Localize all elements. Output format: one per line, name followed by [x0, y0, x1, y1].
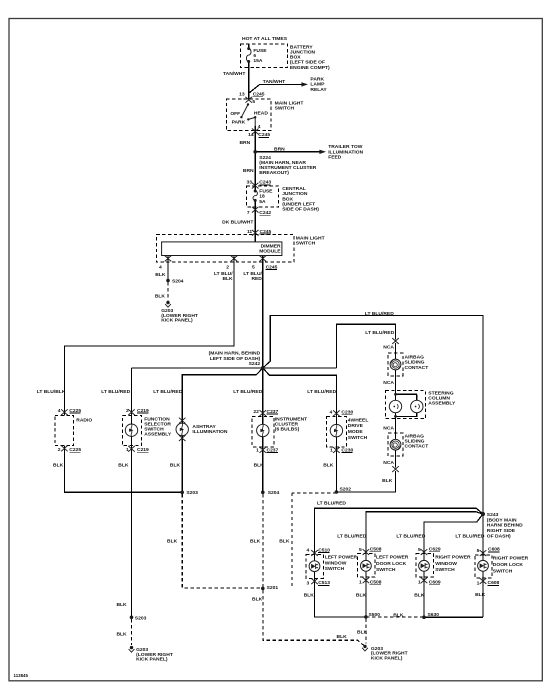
svg-text:RIGHT POWERWINDOWSWITCH: RIGHT POWERWINDOWSWITCH — [435, 555, 471, 573]
arrow to trailer tow illumination feed — [319, 150, 326, 154]
svg-text:BRN: BRN — [243, 168, 254, 174]
svg-text:NCA: NCA — [383, 345, 394, 351]
svg-text:C608: C608 — [488, 547, 500, 553]
connector NCA top (airbag chain) — [392, 338, 399, 344]
connector C245 dimmer pin 2 — [231, 256, 238, 262]
svg-text:C508: C508 — [370, 547, 382, 553]
wire main light switch output pin 14 BRN — [254, 126, 256, 186]
bulb ashtray illumination — [176, 423, 188, 435]
svg-text:LEFT POWERWINDOWSWITCH: LEFT POWERWINDOWSWITCH — [325, 555, 358, 573]
wire LT BLU/RED lower-right branch to 4wd switch — [263, 368, 337, 417]
splice S201 — [261, 587, 265, 591]
splice S203 (bottom left) — [130, 616, 134, 620]
connector C508 pin 1 — [363, 577, 370, 583]
svg-text:HOT AT ALL TIMES: HOT AT ALL TIMES — [242, 36, 288, 42]
svg-text:NCA: NCA — [383, 460, 394, 466]
svg-text:RADIO: RADIO — [76, 418, 92, 424]
svg-text:4: 4 — [58, 408, 61, 414]
svg-text:4WHEELDRIVEMODESWITCH: 4WHEELDRIVEMODESWITCH — [348, 417, 369, 441]
svg-text:BLK: BLK — [356, 593, 367, 599]
svg-text:BLK: BLK — [323, 463, 334, 469]
wire fuse F18 leads — [254, 186, 256, 207]
svg-text:LT BLU/RED: LT BLU/RED — [337, 534, 366, 540]
svg-text:BLK: BLK — [118, 463, 129, 469]
bulb 4wd mode switch — [330, 424, 342, 436]
svg-text:C513: C513 — [318, 580, 330, 586]
ground G203 (bottom left) — [129, 646, 135, 652]
wire BLK dashed S202 to S201 — [292, 493, 337, 588]
svg-text:C242: C242 — [259, 210, 271, 216]
svg-text:LT BLU/RED: LT BLU/RED — [101, 389, 130, 395]
wire BLK dashed S201 to G203 (bottom) — [263, 590, 364, 646]
svg-text:BLK: BLK — [116, 632, 127, 638]
wire LT BLU/RED bus to left power window switch — [315, 508, 484, 554]
svg-text:C230: C230 — [341, 447, 353, 453]
svg-text:5: 5 — [477, 548, 480, 554]
svg-text:TAN/WHT: TAN/WHT — [263, 79, 285, 85]
connector C245 pin 11 — [252, 230, 259, 236]
svg-text:S224(MAIN HARN, NEARINSTRUMENT: S224(MAIN HARN, NEARINSTRUMENT CLUSTERBR… — [259, 155, 316, 176]
bulb function selector illumination — [125, 424, 137, 436]
svg-text:G203(LOWER RIGHTKICK PANEL): G203(LOWER RIGHTKICK PANEL) — [136, 647, 173, 663]
left power window switch box outline — [306, 555, 323, 579]
svg-text:AIRBAGSLIDINGCONTACT: AIRBAGSLIDINGCONTACT — [405, 433, 429, 449]
svg-text:AIRBAGSLIDINGCONTACT: AIRBAGSLIDINGCONTACT — [405, 355, 429, 371]
svg-text:1: 1 — [359, 580, 362, 586]
fuse F6 15A symbol — [246, 49, 251, 62]
svg-text:DIMMER: DIMMER — [261, 243, 281, 249]
bulb instrument cluster — [257, 424, 269, 436]
left power door lock switch box outline — [358, 554, 375, 577]
svg-text:S242: S242 — [249, 361, 261, 367]
splice S204 (upper) — [166, 279, 170, 283]
wire LT BLU/RED bus to right power window switch — [424, 514, 483, 554]
wire DK BLU/WHT C242 to dimmer module pin 11 — [254, 207, 256, 242]
connector C245 pin 14 — [252, 129, 259, 135]
svg-text:4: 4 — [330, 409, 333, 415]
wire ashtray feed lead — [181, 418, 183, 424]
svg-text:LT BLU/: LT BLU/ — [214, 271, 233, 277]
wire LT BLU/RED S243 to right power door lock switch — [482, 514, 484, 555]
svg-text:14: 14 — [248, 132, 254, 138]
wire BLK dashed S203 to G203 (bottom left) — [131, 619, 133, 645]
svg-text:PARK: PARK — [232, 120, 246, 126]
svg-text:3: 3 — [306, 580, 309, 586]
svg-text:4: 4 — [306, 548, 309, 554]
ground G203 (bottom middle) — [362, 645, 368, 651]
svg-text:MAIN LIGHTSWITCH: MAIN LIGHTSWITCH — [275, 100, 304, 111]
wire BLK radio ground to S203 — [64, 446, 182, 493]
svg-text:(MAIN HARN, BEHIND: (MAIN HARN, BEHIND — [209, 351, 261, 357]
wire bulb leads right power window switch — [423, 554, 425, 577]
connector C608 pin 5 — [480, 550, 487, 556]
lamp right power door lock switch — [478, 560, 489, 571]
wire TAN/WHT fuse to main light switch pin 13 — [248, 67, 250, 99]
svg-text:BLK: BLK — [252, 597, 263, 603]
airbag sliding contact 2 box outline — [388, 433, 403, 456]
wire LT BLU/RED dimmer pin 5 to S242 — [262, 256, 264, 368]
wire LT BLU/RED drop to function selector — [131, 368, 133, 415]
svg-text:BRN: BRN — [274, 146, 285, 152]
svg-text:C245: C245 — [258, 132, 270, 138]
svg-text:BLK: BLK — [167, 539, 178, 545]
airbag sliding contact 2 symbol — [390, 439, 401, 450]
svg-text:7: 7 — [247, 210, 250, 216]
svg-text:HEAD: HEAD — [254, 110, 268, 116]
wire bulb leads function selector — [131, 415, 133, 445]
connector C513 pin 3 — [311, 578, 318, 584]
wire BLK dashed S500 to G203 — [365, 618, 367, 643]
svg-text:BLK: BLK — [155, 272, 166, 278]
svg-text:INSTRUMENTCLUSTER(6 BULBS): INSTRUMENTCLUSTER(6 BULBS) — [275, 417, 307, 433]
splice S243 — [481, 512, 485, 516]
connector C245 dimmer pin 4 — [165, 256, 172, 262]
svg-text:G203(LOWER RIGHTKICK PANEL): G203(LOWER RIGHTKICK PANEL) — [161, 308, 198, 324]
svg-text:BLK: BLK — [254, 463, 265, 469]
svg-text:FUNCTIONSELECTORSWITCHASSEMBLY: FUNCTIONSELECTORSWITCHASSEMBLY — [144, 416, 172, 437]
svg-text:2: 2 — [226, 264, 229, 270]
svg-text:LT BLU/RED: LT BLU/RED — [455, 534, 484, 540]
svg-text:C230: C230 — [341, 409, 353, 415]
svg-text:LT BLU/RED: LT BLU/RED — [396, 534, 425, 540]
svg-text:BLK: BLK — [337, 634, 348, 640]
svg-text:LEFT SIDE OF DASH): LEFT SIDE OF DASH) — [210, 356, 261, 362]
svg-text:2: 2 — [58, 447, 61, 453]
svg-text:S201: S201 — [267, 585, 279, 591]
svg-text:BLK: BLK — [250, 539, 261, 545]
svg-text:OFF: OFF — [230, 111, 240, 117]
svg-text:LT BLU/RED: LT BLU/RED — [153, 389, 182, 395]
wire LT BLU/BLK dimmer pin 2 to radio — [64, 256, 234, 416]
svg-text:LT BLU/RED: LT BLU/RED — [317, 500, 346, 506]
wire BLK dashed S203 to S201 — [182, 494, 263, 588]
splice S242 — [261, 366, 265, 370]
splice S202 — [335, 490, 339, 494]
svg-text:TRAILER TOWILLUMINATIONFEED: TRAILER TOWILLUMINATIONFEED — [328, 144, 363, 160]
lamp left power door lock switch — [361, 560, 372, 571]
svg-text:33: 33 — [247, 180, 253, 186]
wire BLK left power window switch to S500 — [315, 578, 366, 617]
svg-text:S500: S500 — [369, 612, 381, 618]
svg-text:1: 1 — [330, 447, 333, 453]
ground G203 (upper left) — [165, 301, 171, 307]
svg-text:S243(BODY MAINHARN/ BEHINDRIGH: S243(BODY MAINHARN/ BEHINDRIGHT SIDEOF D… — [487, 512, 523, 539]
svg-text:5: 5 — [418, 547, 421, 553]
svg-text:1: 1 — [418, 580, 421, 586]
wire LT BLU/RED top bus S242 to S243 — [263, 316, 483, 515]
fuse F18 5A symbol — [253, 191, 257, 200]
main light switch (dimmer) box outline — [156, 234, 294, 262]
splice S224 — [253, 150, 257, 154]
svg-text:MAIN LIGHTSWITCH: MAIN LIGHTSWITCH — [296, 236, 325, 247]
svg-text:C245: C245 — [266, 264, 278, 270]
svg-text:5: 5 — [359, 547, 362, 553]
svg-text:BLK: BLK — [382, 478, 393, 484]
svg-text:S204: S204 — [172, 278, 184, 284]
svg-text:BLK: BLK — [155, 293, 166, 299]
steering column lamp 2 — [411, 400, 423, 412]
svg-text:5: 5 — [252, 264, 255, 270]
wire NCA airbag sliding contact chain — [396, 343, 417, 401]
svg-text:C243: C243 — [259, 180, 271, 186]
wire BLK S630 to right power door lock switch — [424, 578, 483, 617]
splice S204 (near cluster) — [261, 491, 265, 495]
connector NCA bottom (airbag chain) — [392, 466, 399, 472]
svg-text:C245: C245 — [260, 229, 272, 235]
wire TAN/WHT branch to park lamp relay — [249, 84, 302, 93]
svg-text:C219: C219 — [137, 447, 149, 453]
svg-text:LT BLU/RED: LT BLU/RED — [365, 330, 394, 336]
svg-text:BLK: BLK — [475, 592, 486, 598]
svg-text:BLK: BLK — [357, 629, 368, 635]
svg-text:BLK: BLK — [304, 593, 315, 599]
svg-text:C608: C608 — [488, 580, 500, 586]
steering column lamp 1 — [389, 400, 401, 412]
svg-text:G203(LOWER RIGHTKICK PANEL): G203(LOWER RIGHTKICK PANEL) — [371, 646, 408, 662]
splice S500 — [364, 615, 368, 619]
dimmer module box — [162, 242, 282, 256]
svg-text:C237: C237 — [267, 447, 279, 453]
svg-text:BLK: BLK — [170, 463, 181, 469]
battery junction box outline — [240, 44, 287, 68]
svg-text:DK BLU/WHT: DK BLU/WHT — [222, 220, 253, 226]
wire NCA steering lamps to contact 2 — [396, 413, 417, 440]
svg-text:4: 4 — [258, 124, 261, 130]
svg-text:CENTRALJUNCTIONBOX(UNDER LEFTS: CENTRALJUNCTIONBOX(UNDER LEFTSIDE OF DAS… — [282, 186, 319, 212]
connector C225 pin 4 (radio top) — [61, 409, 68, 415]
svg-text:S203: S203 — [186, 490, 198, 496]
steering column assembly box outline — [386, 391, 426, 419]
svg-text:BATTERYJUNCTIONBOX(LEFT SIDE O: BATTERYJUNCTIONBOX(LEFT SIDE OFENGINE CO… — [290, 44, 330, 70]
connector C237 pin 22 (cluster top) — [260, 410, 267, 416]
svg-text:RED: RED — [251, 276, 262, 282]
arrow to park lamp relay — [301, 82, 308, 86]
connector C245 dimmer pin 5 — [260, 256, 267, 262]
connector C242 pin 7 — [252, 207, 259, 213]
svg-text:LT BLU/BLK: LT BLU/BLK — [37, 389, 66, 395]
svg-text:FUSE185A: FUSE185A — [259, 189, 273, 205]
svg-text:NCA: NCA — [383, 426, 394, 432]
wire bulb leads right power door lock switch — [482, 555, 484, 578]
wire bulb leads 4wd switch — [335, 417, 337, 447]
ashtray bulb connectors — [179, 418, 186, 424]
wire BLK ashtray ground — [181, 435, 183, 492]
svg-text:1: 1 — [477, 580, 480, 586]
svg-text:S202: S202 — [340, 486, 352, 492]
svg-text:LT BLU/RED: LT BLU/RED — [365, 311, 394, 317]
svg-text:LT BLU/RED: LT BLU/RED — [307, 389, 336, 395]
svg-text:C245: C245 — [253, 92, 265, 98]
svg-text:4: 4 — [159, 264, 162, 270]
svg-text:MODULE: MODULE — [259, 249, 281, 255]
instrument cluster box outline — [252, 416, 274, 446]
svg-text:22: 22 — [253, 409, 259, 415]
svg-text:BLK: BLK — [222, 276, 233, 282]
svg-text:ASHTRAYILLUMINATION: ASHTRAYILLUMINATION — [192, 424, 227, 435]
svg-text:BLK: BLK — [53, 463, 64, 469]
lamp right power window switch — [419, 560, 430, 571]
svg-text:PARKLAMPRELAY: PARKLAMPRELAY — [310, 77, 327, 93]
svg-text:C508: C508 — [370, 580, 382, 586]
function selector switch box outline — [123, 415, 142, 445]
connector C225 pin 2 (radio bottom) — [61, 446, 68, 452]
connector name underlines — [69, 97, 499, 586]
connector C508 pin 5 — [363, 549, 370, 555]
wire BLK dimmer pin 4 to S204 — [167, 256, 169, 281]
svg-text:BRN: BRN — [239, 140, 250, 146]
connector C510 pin 4 — [311, 550, 318, 556]
svg-text:C510: C510 — [318, 547, 330, 553]
svg-text:1: 1 — [256, 447, 259, 453]
wire LT BLU/RED lower-left branch to ashtray — [182, 368, 263, 424]
wire BRN branch to trailer tow illumination feed — [255, 151, 319, 153]
airbag sliding contact 1 symbol — [390, 359, 401, 370]
connector C608 pin 1 — [480, 578, 487, 584]
connector C237 pin 1 (cluster bottom) — [260, 447, 267, 453]
svg-text:BLK: BLK — [414, 593, 425, 599]
central junction box outline — [246, 186, 278, 207]
svg-text:LT BLU/RED: LT BLU/RED — [233, 389, 262, 395]
wire bulb leads left power window switch — [314, 555, 316, 579]
wire BLK right power window switch to S630 — [423, 577, 425, 617]
right power window switch box outline — [416, 554, 434, 577]
wire LT BLU/RED horizontal S242 bus — [132, 324, 396, 368]
svg-text:113845: 113845 — [14, 673, 29, 678]
connector C245 pin 13 — [245, 97, 252, 103]
svg-text:C237: C237 — [267, 409, 279, 415]
svg-text:STEERINGCOLUMNASSEMBLY: STEERINGCOLUMNASSEMBLY — [428, 390, 456, 406]
wire BLK instrument cluster to S204 — [262, 447, 264, 493]
svg-text:BLK: BLK — [279, 539, 290, 545]
splice S203 (near ashtray) — [180, 491, 184, 495]
connector C609 pin 1 — [421, 577, 428, 583]
wire BLK dashed S204 to G203 (upper left) — [167, 282, 169, 300]
svg-text:BLK: BLK — [393, 612, 404, 618]
svg-text:S630: S630 — [428, 612, 440, 618]
wire LT BLU/RED drop to instrument cluster — [262, 368, 264, 417]
connector C629 pin 5 — [421, 549, 428, 555]
wire BLK function selector ground to S203 — [131, 446, 133, 618]
svg-text:13: 13 — [239, 92, 245, 98]
svg-text:C609: C609 — [429, 580, 441, 586]
wire BLK airbag chain to S202 — [336, 450, 395, 492]
svg-text:2: 2 — [126, 408, 129, 414]
airbag sliding contact 1 box outline — [388, 353, 403, 376]
wire BLK left power door lock switch to S500 — [365, 577, 367, 617]
wire BLK dashed S204 to S201 — [262, 494, 264, 588]
svg-text:C629: C629 — [429, 547, 441, 553]
wire BLK dashed S500 to S630 — [366, 616, 423, 618]
right power door lock switch box outline — [475, 555, 492, 578]
svg-text:C219: C219 — [137, 408, 149, 414]
wire bulb leads left power door lock switch — [365, 554, 367, 577]
svg-text:S203: S203 — [135, 615, 147, 621]
connector C230 pin 4 (4wd top) — [333, 410, 340, 416]
steering column junction dots — [394, 393, 397, 396]
svg-text:FUSE615A: FUSE615A — [253, 48, 267, 64]
svg-text:S204: S204 — [268, 490, 280, 496]
svg-text:LEFT POWERDOOR LOCKSWITCH: LEFT POWERDOOR LOCKSWITCH — [376, 555, 409, 573]
svg-text:BLK: BLK — [116, 602, 127, 608]
svg-text:LT BLU/: LT BLU/ — [243, 271, 262, 277]
connector C230 pin 1 (4wd bottom) — [333, 447, 340, 453]
svg-text:11: 11 — [247, 229, 252, 235]
splice S630 — [422, 615, 426, 619]
main light switch box outline — [226, 99, 271, 130]
wire bulb leads instrument cluster — [262, 416, 264, 446]
wire fuse F6 feed (battery junction box) — [248, 44, 250, 99]
wire BLK 4wd switch to S202 — [335, 447, 337, 492]
connector C219 pin 1 (selector bottom) — [128, 446, 135, 452]
connector C243 pin 33 — [252, 183, 259, 189]
connector C219 pin 2 (selector top) — [128, 409, 135, 415]
lamp left power window switch — [309, 561, 320, 572]
svg-text:TAN/WHT: TAN/WHT — [223, 71, 245, 77]
4wheel drive mode switch box outline — [327, 417, 347, 447]
svg-text:RIGHT POWERDOOR LOCKSWITCH: RIGHT POWERDOOR LOCKSWITCH — [493, 556, 529, 575]
svg-text:C225: C225 — [69, 408, 81, 414]
svg-text:5: 5 — [252, 99, 255, 105]
main light switch internals (OFF/HEAD/PARK contacts) — [241, 105, 255, 127]
wire LT BLU/RED bus to left power door lock switch — [366, 512, 483, 554]
svg-text:NCA: NCA — [383, 380, 394, 386]
radio box outline — [55, 415, 74, 445]
svg-text:1: 1 — [126, 447, 129, 453]
svg-text:C225: C225 — [69, 447, 81, 453]
